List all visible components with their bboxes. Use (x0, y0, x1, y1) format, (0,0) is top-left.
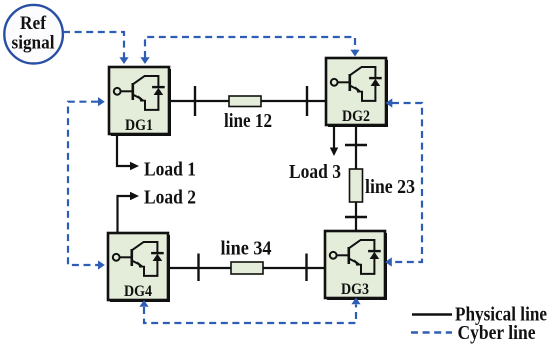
impedance line 34 (231, 262, 263, 274)
bus bar 2 (306, 86, 308, 116)
legend physical line sample (412, 313, 452, 316)
cyber link ref to DG1 (63, 32, 124, 58)
cyber link DG1 to DG4 (left) (68, 102, 98, 265)
wire line 23 (355, 125, 357, 231)
converter DG2 (326, 58, 387, 126)
bus bar 4 (197, 254, 199, 282)
load 3 feeder wire (333, 125, 335, 149)
converter DG4 (108, 233, 169, 301)
svg-text:DG3: DG3 (341, 281, 369, 298)
converter DG3 (325, 231, 386, 299)
svg-text:Load 1: Load 1 (144, 159, 196, 181)
bus bar 3 upper tick (345, 216, 367, 218)
svg-text:DG1: DG1 (125, 117, 153, 134)
svg-text:DG2: DG2 (342, 108, 370, 125)
load 2 feeder wire (118, 196, 131, 233)
cyber link DG2 to DG3 (right) (392, 103, 423, 262)
svg-text:DG4: DG4 (124, 283, 152, 300)
bus bar 1 (194, 86, 196, 116)
converter DG1 (109, 67, 170, 135)
svg-text:Load 3: Load 3 (289, 161, 341, 183)
bus bar 3 (305, 254, 307, 282)
cyber link DG1 to DG2 (145, 37, 355, 58)
svg-text:line 34: line 34 (221, 238, 272, 260)
impedance line 23 (350, 169, 363, 202)
svg-text:Cyber line: Cyber line (458, 322, 536, 344)
wire line 12 (169, 100, 326, 102)
svg-text:signal: signal (12, 33, 55, 54)
svg-text:Load 2: Load 2 (144, 187, 196, 209)
svg-text:Ref: Ref (20, 13, 47, 34)
wire line 34 (168, 267, 325, 269)
svg-text:line 12: line 12 (224, 110, 272, 132)
load 1 feeder wire (117, 134, 130, 166)
bus bar 2 lower tick (345, 144, 367, 146)
ref-signal source circle (4, 5, 63, 64)
legend cyber line sample (411, 331, 452, 333)
cyber link DG4 to DG3 (bottom) (144, 305, 356, 324)
svg-text:line 23: line 23 (365, 176, 415, 198)
impedance line 12 (229, 96, 261, 107)
